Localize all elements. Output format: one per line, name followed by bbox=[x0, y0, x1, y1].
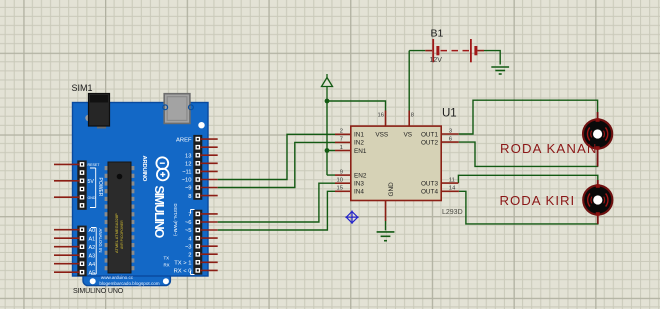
svg-text:2: 2 bbox=[340, 129, 343, 135]
svg-text:1: 1 bbox=[340, 145, 343, 151]
svg-text:ATMEL ATMEGA328P: ATMEL ATMEGA328P bbox=[114, 213, 119, 253]
svg-text:OUT4: OUT4 bbox=[421, 189, 438, 196]
svg-text:~6: ~6 bbox=[185, 220, 192, 226]
ground (battery) bbox=[491, 67, 509, 74]
B1 cell 2 plates bbox=[470, 39, 472, 62]
wire: U1 OUT3 to motor RODA KIRI + bbox=[458, 175, 597, 183]
wire: Arduino D9 to U1 IN2 bbox=[218, 142, 335, 187]
junction node EN1 bbox=[325, 148, 330, 153]
svg-text:POWER: POWER bbox=[97, 178, 103, 197]
svg-text:RODA KANAN: RODA KANAN bbox=[500, 141, 597, 156]
svg-text:IN2: IN2 bbox=[354, 140, 364, 147]
svg-text:16: 16 bbox=[378, 112, 384, 118]
svg-text:IN4: IN4 bbox=[354, 189, 364, 196]
battery B1 bbox=[425, 28, 484, 64]
U1 pin 10 IN3 bbox=[335, 178, 351, 184]
header: power pins (RESET 5V GND) bbox=[77, 160, 86, 209]
svg-text:RODA KIRI: RODA KIRI bbox=[500, 193, 576, 208]
motor RODA KANAN bbox=[583, 112, 612, 166]
svg-text:A0: A0 bbox=[89, 228, 96, 234]
svg-text:~3: ~3 bbox=[185, 244, 192, 250]
svg-text:RESET: RESET bbox=[88, 163, 101, 167]
svg-text:A1: A1 bbox=[89, 236, 96, 242]
wire: battery- to ground bbox=[484, 51, 500, 65]
svg-text:~5: ~5 bbox=[185, 228, 192, 234]
origin marker bbox=[345, 211, 358, 224]
pin stubs left (RESET,5V,GND) bbox=[54, 164, 80, 197]
wire: U1 OUT4 to motor RODA KIRI - bbox=[459, 191, 598, 224]
B1 dashed link bbox=[441, 50, 470, 52]
power terminal +V bbox=[322, 74, 333, 101]
B1 cell 1 plates bbox=[432, 39, 434, 62]
header: digital pins 7-0 bbox=[193, 210, 202, 275]
wire: Arduino D5 to U1 IN4 bbox=[218, 191, 335, 230]
board bottom tab bbox=[83, 262, 170, 286]
U1 pin 2 IN1 bbox=[335, 129, 351, 135]
ground (U1 GND) bbox=[377, 232, 395, 241]
svg-text:ARDUINO: ARDUINO bbox=[141, 156, 147, 182]
svg-text:3: 3 bbox=[449, 128, 452, 134]
svg-text:OUT1: OUT1 bbox=[421, 132, 438, 139]
svg-text:15: 15 bbox=[337, 186, 343, 192]
U1 pin 6 OUT2 bbox=[441, 136, 459, 142]
silkscreen labels right headers bbox=[174, 137, 193, 274]
svg-text:VSS: VSS bbox=[375, 132, 388, 139]
svg-text:14: 14 bbox=[449, 186, 456, 192]
svg-text:8: 8 bbox=[411, 112, 414, 118]
wire: power rail to VSS bbox=[327, 101, 386, 111]
pin stubs right (7-0) bbox=[200, 214, 218, 271]
svg-text:GND: GND bbox=[88, 196, 96, 200]
B1 right pin stub bbox=[477, 50, 484, 52]
svg-text:OUT3: OUT3 bbox=[421, 181, 438, 188]
svg-text:5V: 5V bbox=[88, 179, 95, 185]
svg-text:VS: VS bbox=[404, 132, 413, 139]
svg-text:blogembarcado.blogspot.com: blogembarcado.blogspot.com bbox=[99, 281, 159, 286]
svg-text:RX: RX bbox=[164, 263, 170, 268]
wire: U1 GND pin to ground bbox=[385, 221, 387, 230]
wire: Arduino D6 to U1 IN3 bbox=[218, 183, 335, 222]
wire: Arduino D10 to U1 IN1 bbox=[218, 134, 335, 179]
U1 pin 11 OUT3 bbox=[441, 177, 458, 183]
Arduino module SIM1 bbox=[54, 83, 218, 295]
svg-text:AREF: AREF bbox=[176, 137, 192, 143]
B1 left pin stub bbox=[425, 50, 432, 52]
U1 GND pin bbox=[385, 201, 387, 222]
U1 pin 14 OUT4 bbox=[441, 186, 459, 192]
svg-text:12: 12 bbox=[185, 162, 191, 168]
svg-text:IN1: IN1 bbox=[354, 132, 364, 139]
svg-text:B1: B1 bbox=[431, 28, 444, 40]
U1 pin 7 IN2 bbox=[335, 137, 351, 143]
svg-text:A2: A2 bbox=[89, 245, 96, 251]
svg-text:L293D: L293D bbox=[442, 209, 463, 216]
svg-text:6: 6 bbox=[449, 136, 452, 142]
motor RODA KIRI bbox=[583, 180, 612, 224]
svg-text:OUT2: OUT2 bbox=[421, 140, 438, 147]
svg-text:SIMULINO: SIMULINO bbox=[152, 186, 166, 239]
pin stubs right (AREF-8) bbox=[200, 139, 218, 196]
U1 pin 9 EN2 bbox=[335, 169, 351, 175]
board via rings near USB bbox=[163, 105, 168, 110]
svg-text:ANALOG IN: ANALOG IN bbox=[98, 229, 103, 253]
svg-text:13: 13 bbox=[185, 153, 191, 159]
svg-text:10: 10 bbox=[337, 178, 343, 184]
svg-text:12V: 12V bbox=[430, 57, 443, 64]
junction node power/VSS bbox=[325, 99, 330, 104]
U1 pin 16 VSS bbox=[378, 111, 386, 127]
svg-text:GND: GND bbox=[388, 182, 395, 197]
power jack J1 bbox=[85, 115, 91, 121]
svg-text:A3: A3 bbox=[89, 253, 96, 259]
IC ATmega328 DIP bbox=[105, 162, 135, 273]
svg-text:8: 8 bbox=[188, 194, 191, 200]
wire: power rail to EN1/EN2 bbox=[327, 101, 335, 175]
svg-text:EN2: EN2 bbox=[354, 172, 367, 179]
U1 pin 15 IN4 bbox=[335, 186, 351, 192]
svg-text:A5: A5 bbox=[89, 270, 96, 276]
U1 pin name labels bbox=[354, 132, 438, 197]
USB connector bbox=[164, 94, 190, 124]
svg-text:11: 11 bbox=[449, 177, 455, 183]
U1 pin 3 OUT1 bbox=[441, 128, 459, 134]
header: digital pins AREF-8 bbox=[193, 135, 202, 200]
svg-text:AVR PICOPOWER: AVR PICOPOWER bbox=[120, 220, 124, 249]
svg-text:TX > 1: TX > 1 bbox=[174, 261, 191, 267]
svg-text:7: 7 bbox=[188, 212, 191, 218]
svg-text:www.arduino.cc: www.arduino.cc bbox=[101, 275, 134, 280]
header: analog pins A0-A5 bbox=[77, 226, 86, 277]
board body bbox=[73, 103, 209, 277]
svg-text:~11: ~11 bbox=[182, 170, 191, 176]
wire: battery+ to U1 VS bbox=[409, 51, 425, 111]
U1 pin 1 EN1 bbox=[335, 145, 351, 151]
svg-text:TX: TX bbox=[164, 256, 170, 261]
svg-text:IN3: IN3 bbox=[354, 181, 364, 188]
svg-text:SIM1: SIM1 bbox=[72, 83, 93, 93]
svg-text:2: 2 bbox=[188, 252, 191, 258]
silkscreen labels left headers bbox=[88, 163, 179, 276]
U1 body bbox=[351, 126, 441, 200]
svg-text:7: 7 bbox=[340, 137, 343, 143]
wire: U1 OUT2 to motor RODA KANAN - bbox=[459, 142, 598, 166]
mounting hole top right bbox=[198, 122, 204, 128]
svg-text:EN1: EN1 bbox=[354, 148, 367, 155]
svg-text:9: 9 bbox=[340, 169, 343, 175]
svg-text:DIGITAL (PWM~): DIGITAL (PWM~) bbox=[173, 204, 178, 237]
svg-text:SIMULINO UNO: SIMULINO UNO bbox=[73, 288, 124, 295]
svg-text:RX < 0: RX < 0 bbox=[174, 269, 192, 275]
silkscreen bracket lines bbox=[90, 168, 96, 208]
svg-text:A4: A4 bbox=[89, 262, 96, 268]
mounting holes bottom tab bbox=[90, 278, 96, 284]
svg-text:~9: ~9 bbox=[185, 186, 192, 192]
wire: U1 OUT1 to motor RODA KANAN + bbox=[459, 100, 598, 134]
svg-text:~10: ~10 bbox=[182, 178, 192, 184]
Arduino logo bbox=[141, 156, 169, 182]
motor driver U1 L293D bbox=[335, 108, 463, 222]
pin stubs left (A0-A5) bbox=[54, 230, 80, 273]
U1 pin 8 VS bbox=[409, 111, 414, 127]
svg-text:U1: U1 bbox=[442, 108, 457, 120]
